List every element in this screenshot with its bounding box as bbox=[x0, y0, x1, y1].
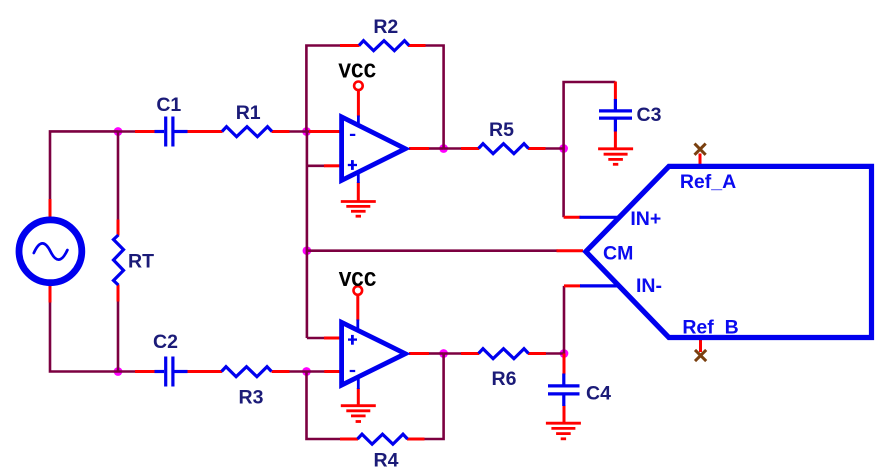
ground under U1 bbox=[341, 202, 376, 217]
capacitor C2 bbox=[155, 357, 188, 387]
wire stub Ref_A bbox=[699, 154, 702, 165]
svg-text:IN+: IN+ bbox=[630, 208, 661, 230]
wire R2 feedback left vertical bbox=[306, 46, 341, 133]
pin gnd U1 blue bbox=[357, 173, 360, 183]
svg-text:Ref_B: Ref_B bbox=[682, 317, 738, 339]
wire stub R2 left bbox=[340, 44, 360, 47]
wire R4 feedback left vertical bbox=[307, 372, 342, 440]
pin VCC U1 blue bbox=[357, 116, 360, 125]
wire stub VCC U1 bbox=[357, 90, 360, 117]
svg-text:IN-: IN- bbox=[636, 275, 662, 297]
node R6/C4 junction bbox=[560, 349, 569, 358]
wire stub IN- bbox=[564, 284, 581, 287]
U2 minus sign bbox=[350, 370, 356, 372]
wire junction to R5 bbox=[444, 147, 462, 150]
resistor R5 bbox=[479, 144, 529, 154]
wire RT bottom bbox=[117, 301, 120, 372]
wire left mid column (plus inputs / CM) bbox=[306, 132, 309, 339]
wire stub U1 minus bbox=[309, 130, 340, 133]
wire stub IN+ bbox=[564, 216, 581, 219]
wire R4 feedback right vertical bbox=[424, 354, 444, 440]
wire stub R4 left bbox=[340, 438, 358, 441]
wire stub CM bbox=[557, 249, 584, 252]
svg-text:C2: C2 bbox=[153, 331, 178, 353]
svg-text:C3: C3 bbox=[637, 104, 662, 126]
capacitor C3 bbox=[599, 99, 632, 132]
pin IN+ bbox=[580, 216, 619, 219]
RED PIN STUBS bbox=[50, 46, 701, 440]
capacitor C1 bbox=[155, 117, 188, 147]
wire stub RT top bbox=[117, 220, 120, 236]
svg-text:Ref_A: Ref_A bbox=[680, 171, 736, 193]
wire stub VCC U2 bbox=[356, 295, 359, 321]
wire stub source bottom bbox=[49, 286, 52, 303]
wire stub C2 left bbox=[135, 370, 156, 373]
ground under U2 bbox=[341, 406, 376, 422]
svg-text:R4: R4 bbox=[374, 450, 399, 472]
node U2 minus junction bbox=[302, 367, 311, 376]
svg-text:R1: R1 bbox=[236, 102, 261, 124]
resistor R6 bbox=[479, 349, 529, 359]
wire node up to IN- bbox=[563, 286, 566, 354]
capacitor C4 bbox=[548, 374, 580, 407]
wire junction to C1 bbox=[118, 130, 136, 133]
wire R1 to U1 minus junction bbox=[289, 130, 310, 133]
wire stub R5 left bbox=[461, 147, 479, 150]
wire R5 to node junction bbox=[545, 147, 564, 150]
svg-text:R3: R3 bbox=[239, 387, 264, 409]
resistor R1 bbox=[222, 127, 272, 137]
wire stub U1 plus bbox=[324, 164, 340, 167]
wire stub U2 plus bbox=[324, 337, 340, 340]
wire stub gnd U2 bbox=[357, 388, 360, 406]
U1 minus sign bbox=[350, 134, 355, 136]
wire stub R6 left bbox=[461, 352, 479, 355]
wire stub C1-R1 bbox=[187, 130, 223, 133]
resistor R2 bbox=[359, 41, 409, 51]
no-connect X Ref_A bbox=[695, 144, 706, 155]
wire RT top bbox=[117, 131, 120, 220]
VCC pin circle U2 bbox=[354, 286, 363, 295]
svg-text:RT: RT bbox=[128, 251, 154, 273]
wire R3 to U2 minus junction bbox=[289, 370, 307, 373]
wire stub R3 right bbox=[272, 370, 290, 373]
wire stub R2 right bbox=[408, 44, 426, 47]
wire stub U2 output bbox=[409, 352, 429, 355]
wire R2 feedback right vertical bbox=[425, 46, 444, 149]
source V1 sine generator bbox=[19, 220, 82, 283]
svg-text:VCC: VCC bbox=[339, 270, 377, 293]
ADC polygon U3 bbox=[586, 166, 872, 337]
resistor RT bbox=[114, 235, 124, 285]
svg-text:VCC: VCC bbox=[338, 62, 376, 85]
wire stub C4 bottom bbox=[563, 405, 566, 422]
svg-text:CM: CM bbox=[603, 243, 633, 265]
op-amp U2 bbox=[342, 322, 406, 385]
wire stub Ref_B bbox=[699, 339, 702, 353]
wire stub C3 top bbox=[614, 82, 617, 101]
node U1 output junction bbox=[439, 144, 448, 153]
wire stub U1 output bbox=[409, 147, 429, 150]
U1 plus sign bbox=[348, 160, 357, 170]
wire stub RT bottom bbox=[117, 285, 120, 302]
svg-text:R6: R6 bbox=[492, 368, 517, 390]
pin gnd U2 blue bbox=[357, 378, 360, 390]
wire stub C1 left bbox=[135, 130, 156, 133]
wire stub R4 right bbox=[407, 438, 425, 441]
wire stub R1 right bbox=[272, 130, 290, 133]
node C2/RT junction bbox=[114, 367, 123, 376]
wire CM horizontal bbox=[307, 249, 558, 252]
wire junction to C2 bbox=[118, 370, 136, 373]
ground under C4 bbox=[546, 423, 581, 439]
wire stub C4 top bbox=[563, 354, 566, 375]
wire stub C3 bottom bbox=[614, 131, 617, 148]
pin VCC U2 blue bbox=[356, 320, 359, 330]
node U2 output junction bbox=[439, 349, 448, 358]
U2 plus sign bbox=[348, 335, 357, 345]
svg-text:C4: C4 bbox=[586, 383, 611, 405]
wire U1 output to junction bbox=[428, 147, 444, 150]
wire node down to IN+ bbox=[562, 149, 565, 218]
wire stub source top bbox=[49, 199, 52, 218]
resistor R4 bbox=[358, 434, 408, 444]
wire source-bottom to C2 junction bbox=[50, 302, 118, 372]
wire U2 minus stub maroon part bbox=[307, 370, 325, 373]
wire stub gnd U1 bbox=[357, 182, 360, 202]
node R5/C3 junction bbox=[559, 144, 568, 153]
node C1/RT junction bbox=[114, 127, 123, 136]
wire source-top to C1 junction bbox=[50, 131, 118, 200]
wire stub R6 right bbox=[528, 352, 546, 355]
wire stub U2 minus bbox=[324, 370, 340, 373]
wire U1 plus stub bbox=[307, 165, 325, 168]
ground under C3 bbox=[598, 149, 633, 165]
svg-text:C1: C1 bbox=[156, 94, 181, 116]
wire junction to R6 bbox=[444, 352, 462, 355]
wire node to C3 bbox=[564, 82, 616, 149]
svg-text:R5: R5 bbox=[489, 119, 514, 141]
wire U2 output to junction bbox=[428, 352, 444, 355]
no-connect X Ref_B bbox=[695, 350, 706, 361]
resistor R3 bbox=[222, 367, 272, 377]
wire stub R5 right bbox=[528, 147, 546, 150]
svg-text:R2: R2 bbox=[373, 16, 398, 38]
node U1 minus junction bbox=[302, 127, 311, 136]
wire R6 to node junction bbox=[546, 352, 565, 355]
op-amp U1 bbox=[342, 117, 406, 180]
node CM junction bbox=[303, 246, 312, 255]
wire U2 plus stub bbox=[307, 337, 325, 340]
wire stub C2-R3 bbox=[187, 370, 223, 373]
VCC pin circle U1 bbox=[354, 82, 363, 91]
pin IN- bbox=[580, 284, 620, 287]
